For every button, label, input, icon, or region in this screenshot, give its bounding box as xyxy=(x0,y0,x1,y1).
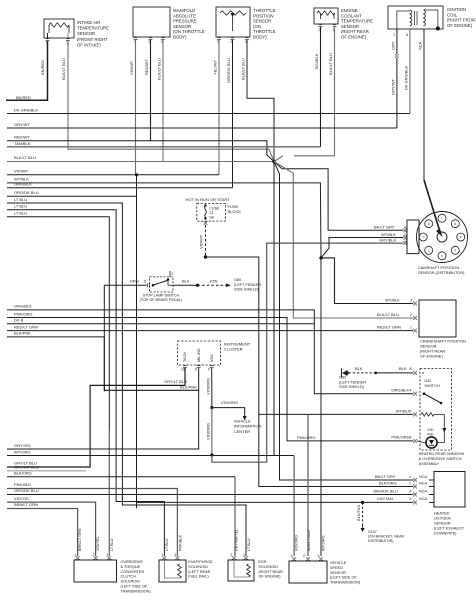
svg-text:MIL IND: MIL IND xyxy=(197,348,201,362)
bus wire VIO/YEL y502 xyxy=(7,502,96,556)
svg-text:& TORQUE: & TORQUE xyxy=(121,565,141,569)
svg-text:GRY/LT BLU: GRY/LT BLU xyxy=(164,379,187,384)
svg-text:BODY): BODY) xyxy=(253,35,267,40)
svg-text:BK/RED: BK/RED xyxy=(40,60,45,75)
svg-text:BK/LT GRY: BK/LT GRY xyxy=(375,474,396,479)
svg-text:BK/LT GRY: BK/LT GRY xyxy=(374,225,395,230)
svg-text:(RIGHT REAR: (RIGHT REAR xyxy=(258,570,283,574)
svg-text:G80: G80 xyxy=(234,278,241,282)
camshaft position sensor connector xyxy=(407,220,419,254)
bus wire RED/WT y141 to splice xyxy=(7,141,274,162)
svg-text:RED/WT: RED/WT xyxy=(144,59,149,75)
svg-text:VEHICLE: VEHICLE xyxy=(330,561,347,565)
svg-text:6: 6 xyxy=(410,436,412,440)
svg-text:(LEFT FENDER: (LEFT FENDER xyxy=(234,283,261,287)
wire IAT ground diagonal into splice xyxy=(269,149,274,161)
svg-text:VSS: VSS xyxy=(210,354,214,362)
svg-text:6: 6 xyxy=(144,280,146,284)
splice dot VIO/ORG xyxy=(210,406,213,409)
svg-text:8: 8 xyxy=(406,33,408,37)
wire TAN/BLK from ECT pin 2 xyxy=(320,27,322,147)
svg-text:VIO/WT: VIO/WT xyxy=(129,60,134,75)
svg-text:7: 7 xyxy=(410,410,412,414)
svg-text:(ON THROTTLE: (ON THROTTLE xyxy=(173,29,205,34)
svg-text:4: 4 xyxy=(409,489,411,493)
svg-text:NCA: NCA xyxy=(419,489,427,493)
svg-text:BLK/LT BLU: BLK/LT BLU xyxy=(307,530,311,551)
svg-text:STOP LAMP SWITCH: STOP LAMP SWITCH xyxy=(143,294,180,298)
fuse element xyxy=(205,206,207,219)
svg-text:3: 3 xyxy=(410,298,412,302)
svg-text:BLK/PNK: BLK/PNK xyxy=(14,331,31,336)
svg-text:BLK: BLK xyxy=(355,366,363,371)
svg-text:2: 2 xyxy=(93,553,95,557)
bus wire WT/ORG y455 xyxy=(7,455,294,457)
bus wire GRY/WT y128 xyxy=(7,127,397,129)
vehicle speed sensor box xyxy=(289,561,327,583)
bus wire RED/LT GRN y331 xyxy=(7,330,413,332)
svg-text:THROTTLE: THROTTLE xyxy=(253,29,276,34)
svg-text:3: 3 xyxy=(106,553,108,557)
svg-text:BRN/LT GRN: BRN/LT GRN xyxy=(78,528,82,551)
svg-text:BK/RED: BK/RED xyxy=(16,95,31,100)
svg-text:(RIGHT REAR: (RIGHT REAR xyxy=(341,29,369,34)
bus wire BLK/ORG y477 to EGR pin1 xyxy=(7,476,235,478)
wire RED/WT from MAP pin 2 xyxy=(150,40,152,141)
wire VIO/ORG from cluster VSS xyxy=(211,368,213,408)
stop lamp switch dashed box xyxy=(150,277,174,292)
svg-text:TRANSMISSION): TRANSMISSION) xyxy=(121,589,152,593)
svg-text:BLK: BLK xyxy=(182,279,190,284)
svg-text:TAN/BLK: TAN/BLK xyxy=(314,53,319,70)
svg-text:SENSOR: SENSOR xyxy=(173,24,191,29)
svg-text:ORG/DK BLU: ORG/DK BLU xyxy=(14,190,39,195)
svg-text:WT/ORG: WT/ORG xyxy=(14,449,30,454)
svg-text:TEMPERATURE: TEMPERATURE xyxy=(77,26,109,31)
wire BLK/LT BLU from MAP pin 1 xyxy=(162,40,164,162)
svg-text:BLOCK: BLOCK xyxy=(228,209,242,214)
svg-text:VIO/ORG: VIO/ORG xyxy=(221,400,238,405)
svg-text:(LEFT FENDER: (LEFT FENDER xyxy=(339,380,366,384)
ignition coil box xyxy=(388,6,443,29)
svg-text:ASSEMBLY: ASSEMBLY xyxy=(419,461,440,466)
svg-text:HOT IN RUN OR START: HOT IN RUN OR START xyxy=(186,197,231,202)
svg-text:(FRONT RIGHT: (FRONT RIGHT xyxy=(77,37,108,42)
svg-text:DOWNPIPE): DOWNPIPE) xyxy=(434,531,457,536)
svg-text:BLK/LT BLU: BLK/LT BLU xyxy=(241,58,246,80)
svg-text:LT BLU: LT BLU xyxy=(110,538,114,551)
svg-text:WT/ORG: WT/ORG xyxy=(322,535,326,551)
svg-text:1: 1 xyxy=(409,475,411,479)
svg-text:POSITION: POSITION xyxy=(253,13,274,18)
svg-text:BLK/LT BLU: BLK/LT BLU xyxy=(61,58,66,80)
svg-text:ORG/BLK: ORG/BLK xyxy=(14,304,32,309)
svg-text:SOLENOID: SOLENOID xyxy=(258,565,278,569)
wire LT BLU 1 xyxy=(7,203,246,556)
svg-text:VIO/YEL: VIO/YEL xyxy=(96,536,100,551)
bus wire faint y471 xyxy=(7,470,86,472)
splice dot WT/BLK xyxy=(319,256,322,259)
wire YEL/WT from TPS pin 3 xyxy=(218,40,220,175)
svg-text:4: 4 xyxy=(410,389,412,393)
wire BLK/LT BLU from IAT pin 2 xyxy=(68,41,269,149)
overdrive TCC solenoid box xyxy=(74,560,117,582)
wire BLK from stop lamp switch to ground xyxy=(173,284,198,286)
wire VIO/WT from fuse (dashed) xyxy=(205,225,207,257)
svg-text:OVERDRIVE: OVERDRIVE xyxy=(121,560,144,564)
svg-text:LT BLU: LT BLU xyxy=(14,204,27,209)
svg-text:GRY/BLK: GRY/BLK xyxy=(379,237,397,242)
svg-text:BLK/PNK: BLK/PNK xyxy=(180,385,197,390)
svg-text:GRY/WT: GRY/WT xyxy=(391,79,396,95)
wire LT BLU 2 xyxy=(7,210,164,556)
svg-text:(LEFT SIDE OF: (LEFT SIDE OF xyxy=(330,576,357,580)
svg-text:SWITCH: SWITCH xyxy=(424,383,440,388)
bus wire ORG/BLK y188 xyxy=(7,187,233,189)
svg-text:BLK/LT BLU: BLK/LT BLU xyxy=(157,58,162,80)
svg-text:3: 3 xyxy=(318,554,320,558)
wire DK GRN/BLK from coil pin 2 xyxy=(409,29,411,114)
svg-text:1: 1 xyxy=(410,326,412,330)
fuse block dashed box xyxy=(197,203,226,221)
svg-text:1: 1 xyxy=(291,554,293,558)
wire BK/RED from IAT pin 1 xyxy=(6,41,48,100)
svg-text:PNK/BLK: PNK/BLK xyxy=(179,534,183,551)
bus wire PNK/ORG y317 xyxy=(7,318,413,441)
svg-text:2: 2 xyxy=(409,481,411,485)
bus wire VIO/WT y175 xyxy=(7,174,219,176)
svg-text:BRN/LT GRN: BRN/LT GRN xyxy=(14,502,38,507)
svg-text:DK GRN/BLK: DK GRN/BLK xyxy=(14,108,39,113)
svg-text:SENSOR: SENSOR xyxy=(330,571,346,575)
svg-text:BLK/ORG: BLK/ORG xyxy=(14,470,32,475)
O/D switch contacts xyxy=(423,392,426,395)
stop lamp switch contacts xyxy=(152,284,155,287)
svg-text:10: 10 xyxy=(181,368,185,372)
bus wire WT/BLK y183 xyxy=(7,183,321,258)
svg-text:1: 1 xyxy=(75,553,77,557)
svg-text:CLUTCH: CLUTCH xyxy=(121,575,137,579)
wire ORG/DK BLU from TPS pin 2 xyxy=(232,40,234,188)
svg-text:LT BLU: LT BLU xyxy=(165,538,169,551)
svg-text:IND: IND xyxy=(427,433,434,437)
wire GRY/LT BLU from cluster TACH xyxy=(7,368,185,467)
svg-text:21: 21 xyxy=(209,211,213,215)
wire BLK/PNK from cluster MIL xyxy=(7,368,199,449)
wire BLK/TAN dashed to ground G107 xyxy=(362,502,364,527)
svg-text:(ON: (ON xyxy=(253,24,261,29)
ground G80 (O/D switch) with dashed BLK wire xyxy=(341,369,343,378)
svg-text:(LEFT REAR: (LEFT REAR xyxy=(188,570,210,574)
svg-text:IGNITION: IGNITION xyxy=(447,7,466,12)
svg-text:5: 5 xyxy=(195,368,197,372)
svg-text:OF ENGINE): OF ENGINE) xyxy=(447,23,473,28)
svg-text:SOLENOID: SOLENOID xyxy=(121,580,141,584)
svg-text:TACH: TACH xyxy=(183,352,187,362)
svg-text:ENGINE: ENGINE xyxy=(341,8,358,13)
bus wire BLK/PNK y337 xyxy=(7,336,104,338)
svg-text:WT/BLK: WT/BLK xyxy=(381,232,396,237)
svg-text:VIO/ORG: VIO/ORG xyxy=(206,378,211,395)
svg-text:BLK/TAN: BLK/TAN xyxy=(356,505,361,521)
svg-text:VIO/WT: VIO/WT xyxy=(199,234,204,249)
svg-text:SOLENOID: SOLENOID xyxy=(188,565,208,569)
svg-text:INTAKE AIR: INTAKE AIR xyxy=(77,20,100,25)
svg-text:OF ENGINE): OF ENGINE) xyxy=(258,575,281,579)
svg-text:(TOP OF BRAKE PEDAL): (TOP OF BRAKE PEDAL) xyxy=(140,298,183,302)
svg-text:PNK/ORG: PNK/ORG xyxy=(391,435,409,440)
svg-text:FUEL RAIL): FUEL RAIL) xyxy=(188,575,209,579)
svg-text:2: 2 xyxy=(172,272,174,276)
wire VIO/TAN to oxygen pin3 xyxy=(137,501,414,503)
svg-text:DK GRN/BLK: DK GRN/BLK xyxy=(404,65,409,90)
svg-text:DISTRIBUTOR): DISTRIBUTOR) xyxy=(368,539,394,543)
svg-text:FUSE: FUSE xyxy=(209,207,220,211)
svg-text:ORG/BLK: ORG/BLK xyxy=(14,182,32,187)
bus wire ORG/BLK y310 xyxy=(7,310,413,394)
engine coolant temperature sensor box xyxy=(314,8,338,24)
O/D switch dashed box xyxy=(420,369,451,451)
svg-text:OF ENGINE): OF ENGINE) xyxy=(420,354,443,359)
wire YEL/WT from MAP pin 3 xyxy=(135,40,137,175)
bus wire ORG/DK BLU y196 xyxy=(7,195,137,197)
instrument cluster dashed box xyxy=(178,341,221,365)
svg-text:GRY/WT BLU: GRY/WT BLU xyxy=(14,464,39,469)
svg-text:NCA: NCA xyxy=(419,475,427,479)
svg-text:NCA: NCA xyxy=(419,497,427,501)
svg-text:SENSOR (DISTRIBUTOR): SENSOR (DISTRIBUTOR) xyxy=(418,270,465,275)
svg-text:1: 1 xyxy=(393,33,395,37)
svg-text:8: 8 xyxy=(410,367,412,371)
wire NCA from coil tower to distributor rotor xyxy=(423,29,425,180)
bus wire DK GRN/BLK y114 xyxy=(7,113,410,115)
heated oxygen sensor box xyxy=(434,472,465,508)
svg-text:MANIFOLD: MANIFOLD xyxy=(173,8,195,13)
svg-text:(RIGHT FRONT: (RIGHT FRONT xyxy=(447,18,476,23)
svg-text:TEMPERATURE: TEMPERATURE xyxy=(341,19,373,24)
svg-text:2: 2 xyxy=(303,554,305,558)
svg-text:ORG/DK BLU: ORG/DK BLU xyxy=(226,58,231,83)
svg-text:SENSOR: SENSOR xyxy=(341,24,359,29)
svg-text:RED/LT GRN: RED/LT GRN xyxy=(377,325,401,330)
svg-text:BLK/LT BLU: BLK/LT BLU xyxy=(377,312,399,317)
svg-text:PNK/ORG: PNK/ORG xyxy=(297,435,315,440)
svg-text:COIL: COIL xyxy=(447,12,458,17)
wire BLK/LT BLU from ECT pin 1 xyxy=(294,27,335,156)
svg-text:OF ENGINE): OF ENGINE) xyxy=(341,35,367,40)
splice dot on VIO/WT at MAP wire xyxy=(135,173,138,176)
svg-text:BLK: BLK xyxy=(399,366,407,371)
svg-text:RED/WT: RED/WT xyxy=(14,135,30,140)
evap purge solenoid box xyxy=(159,560,186,582)
svg-text:BLK/ORG: BLK/ORG xyxy=(379,480,397,485)
svg-text:GRY: GRY xyxy=(391,41,396,50)
svg-text:BLK/LT BLU: BLK/LT BLU xyxy=(328,53,333,75)
sensor ground splice S1 xyxy=(272,160,275,163)
svg-text:EVAP/PURGE: EVAP/PURGE xyxy=(188,560,213,564)
svg-text:TAN/BLK: TAN/BLK xyxy=(14,141,31,146)
bus wire TAN/BLK y147 xyxy=(7,146,321,148)
svg-text:SPEED: SPEED xyxy=(330,566,343,570)
svg-text:ORG/BLK: ORG/BLK xyxy=(391,388,409,393)
svg-text:LT BLU: LT BLU xyxy=(14,211,27,216)
svg-text:CLUSTER: CLUSTER xyxy=(224,347,243,352)
svg-text:CENTER: CENTER xyxy=(234,429,251,434)
wire ORG/BLK to stop lamp switch xyxy=(104,284,146,286)
svg-text:O/D: O/D xyxy=(427,428,434,432)
svg-text:GRY/WT: GRY/WT xyxy=(14,122,30,127)
svg-text:G80: G80 xyxy=(339,376,346,380)
svg-text:(ON BRACKET, NEAR: (ON BRACKET, NEAR xyxy=(368,535,405,539)
svg-text:VIO/TAN: VIO/TAN xyxy=(377,496,393,501)
crankshaft position sensor box xyxy=(419,300,456,337)
svg-text:9A: 9A xyxy=(209,216,214,220)
svg-text:2: 2 xyxy=(174,553,176,557)
instrument cluster pins xyxy=(183,365,187,368)
wire WT/BLK to distributor pin 2 xyxy=(321,238,403,258)
wire ORG/BLK vertical x104 xyxy=(103,285,105,391)
svg-text:PNK/ORG: PNK/ORG xyxy=(14,311,32,316)
svg-text:2: 2 xyxy=(410,313,412,317)
svg-text:THROTTLE: THROTTLE xyxy=(253,8,276,13)
svg-text:G107: G107 xyxy=(368,530,377,534)
svg-text:VIO/ORG: VIO/ORG xyxy=(206,423,211,440)
svg-text:CONVERTER: CONVERTER xyxy=(121,570,145,574)
svg-text:COOLANT: COOLANT xyxy=(341,13,362,18)
svg-text:ORG/DK BLU: ORG/DK BLU xyxy=(373,488,398,493)
svg-text:2: 2 xyxy=(231,553,233,557)
svg-text:GRY/YEL: GRY/YEL xyxy=(14,443,32,448)
intake air temperature sensor box xyxy=(44,19,74,38)
distributor cap towers xyxy=(438,214,446,222)
svg-text:DK PNK/YEL: DK PNK/YEL xyxy=(235,529,239,551)
svg-text:1: 1 xyxy=(161,553,163,557)
svg-text:(LEFT SIDE OF: (LEFT SIDE OF xyxy=(121,585,148,589)
wire BLK/LT BLU from TPS pin 1 xyxy=(247,40,274,162)
bus wire DK B y324 xyxy=(7,323,314,325)
svg-text:9: 9 xyxy=(208,368,210,372)
svg-text:VIO/ORG: VIO/ORG xyxy=(295,535,299,551)
splice dot below fuse xyxy=(204,255,207,258)
manifold absolute pressure sensor box xyxy=(133,7,170,37)
wire LT BLU 3 xyxy=(7,217,109,430)
svg-text:PRESSURE: PRESSURE xyxy=(173,19,197,24)
svg-text:1: 1 xyxy=(243,553,245,557)
svg-text:SIDE SHIELD): SIDE SHIELD) xyxy=(234,288,260,292)
svg-text:SENSOR: SENSOR xyxy=(77,31,95,36)
svg-text:K55: K55 xyxy=(210,279,218,284)
svg-text:PNK/BLK: PNK/BLK xyxy=(14,482,31,487)
svg-text:DRN: DRN xyxy=(130,279,139,284)
svg-text:YEL/WT: YEL/WT xyxy=(213,60,218,75)
camshaft position sensor circle xyxy=(417,212,468,263)
bus wire BRN/LT GRN y508 xyxy=(7,509,78,557)
fuse output connector xyxy=(204,222,208,225)
svg-text:SENSOR: SENSOR xyxy=(253,19,271,24)
svg-text:LT BLU: LT BLU xyxy=(14,197,27,202)
svg-text:VIO/YEL: VIO/YEL xyxy=(14,496,30,501)
svg-text:WT/BLK: WT/BLK xyxy=(385,297,400,302)
svg-text:BODY): BODY) xyxy=(173,35,187,40)
svg-text:LT BLU: LT BLU xyxy=(247,538,251,551)
svg-text:3: 3 xyxy=(409,497,411,501)
wire GRY from coil pin 1 xyxy=(396,29,398,54)
svg-text:DK B: DK B xyxy=(14,318,24,323)
throttle position sensor box xyxy=(216,7,250,37)
svg-text:NCA: NCA xyxy=(418,41,423,50)
svg-text:EGR: EGR xyxy=(258,560,266,564)
svg-text:VIO/WT: VIO/WT xyxy=(14,169,29,174)
svg-text:RED/LT GRN: RED/LT GRN xyxy=(14,324,38,329)
wire VIO/ORG continues down xyxy=(211,408,213,455)
svg-text:ABSOLUTE: ABSOLUTE xyxy=(173,13,196,18)
svg-text:ORG/DK BLU: ORG/DK BLU xyxy=(14,488,39,493)
bus wire BLK/LT BLU y161 to splice xyxy=(7,161,274,163)
EGR solenoid box xyxy=(228,560,254,581)
svg-text:SIDE SHIELD): SIDE SHIELD) xyxy=(339,385,365,389)
svg-text:NCA: NCA xyxy=(419,481,427,485)
svg-text:OF INTAKE): OF INTAKE) xyxy=(77,42,101,47)
bus wire PNK/BLK y488 xyxy=(7,489,177,557)
bus wire ORG/DK BLU y494 to oxygen pin4 xyxy=(7,494,413,496)
svg-text:TRANSMISSION): TRANSMISSION) xyxy=(330,581,361,585)
svg-text:BLK/LT BLU: BLK/LT BLU xyxy=(14,155,36,160)
